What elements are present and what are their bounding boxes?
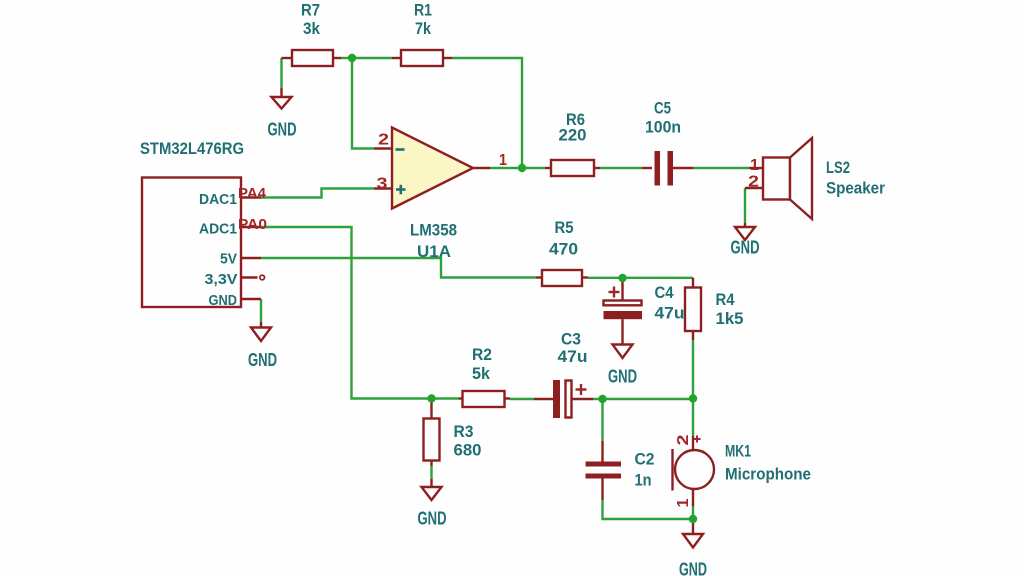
svg-text:LS2: LS2 [826,158,850,177]
svg-text:3: 3 [377,176,388,193]
wire junction down to C2 [601,399,603,441]
svg-text:3,3V: 3,3V [205,272,238,288]
wire speaker pin2 to GND [744,188,746,223]
svg-text:3k: 3k [303,19,320,38]
plus mark [396,185,406,195]
svg-text:1: 1 [675,498,692,507]
svg-text:2: 2 [378,132,389,149]
svg-text:GND: GND [731,238,760,258]
svg-text:R5: R5 [555,218,574,237]
junction node R4/mic [689,394,697,402]
wire 5V to R5 [261,258,536,278]
svg-text:680: 680 [454,441,482,460]
wire R2 to C3 [510,398,534,400]
capacitor C3 [534,380,593,418]
svg-text:GND: GND [418,509,447,529]
svg-text:2: 2 [675,434,692,445]
svg-text:LM358: LM358 [410,221,457,240]
pin GND stub [241,298,261,300]
ground below speaker [735,223,755,240]
svg-text:100n: 100n [645,118,681,137]
resistor R6 [545,160,600,176]
svg-text:470: 470 [549,240,578,259]
wire R3 bottom to GND [430,466,432,479]
svg-text:1: 1 [499,152,507,169]
wire R7 left to GND [280,58,282,88]
svg-text:GND: GND [608,367,637,387]
junction node R2/R3 [427,394,435,402]
capacitor C4 [604,281,643,345]
wire STM GND pin down [260,299,262,322]
svg-text:5k: 5k [472,364,491,383]
wire mic junction down to mic pin2 [692,399,694,436]
svg-text:C3: C3 [561,330,581,349]
svg-text:GND: GND [268,120,297,140]
svg-text:1n: 1n [635,471,652,490]
junction node R5/C4 [618,274,626,282]
svg-text:Speaker: Speaker [826,179,885,198]
wire R6 to C5 [600,167,642,169]
resistor R5 [536,270,588,286]
svg-text:Microphone: Microphone [725,465,811,484]
wire mic pin1 to junction [692,506,694,519]
ground below R7 [272,88,292,109]
capacitor C2 [586,441,622,500]
svg-text:GND: GND [679,560,707,576]
junction node mic/C2 gnd [689,515,697,523]
svg-text:R2: R2 [472,345,492,364]
wire C5 to speaker pin1 [693,167,749,169]
pin 3,3V stub with open circle [241,276,258,278]
svg-text:STM32L476RG: STM32L476RG [140,139,244,158]
svg-text:DAC1: DAC1 [199,192,237,208]
ground below C4 [613,345,633,359]
svg-text:R4: R4 [716,290,735,309]
svg-text:U1A: U1A [417,242,451,261]
wire C3 to junction [593,398,603,400]
wire R5 right to R4 [588,277,693,279]
svg-text:47u: 47u [558,347,588,366]
ground below STM32 [251,322,271,341]
IC U2 STM32L476RG box [142,178,241,308]
wire junction down to op-amp pin2 [352,58,374,149]
ground below mic [683,519,703,548]
svg-text:C4: C4 [655,283,674,302]
svg-text:1k5: 1k5 [716,309,744,328]
op-amp pin2 stub [374,147,392,149]
wire C3 junction to mic junction [603,398,694,400]
ground below R3 [422,479,442,500]
svg-text:5V: 5V [220,252,237,268]
C4 plus mark [609,287,620,298]
svg-text:PA0: PA0 [238,216,267,233]
svg-text:GND: GND [209,293,238,309]
resistor R4 [685,278,701,340]
svg-text:PA4: PA4 [238,185,267,202]
svg-text:220: 220 [559,126,587,145]
wire DAC1 to op-amp pin3 [261,189,374,198]
wire R4 bottom to junction [692,340,694,399]
pin 5V stub [241,257,261,259]
svg-text:2: 2 [748,174,759,191]
resistor R7 [282,50,342,66]
svg-text:MK1: MK1 [725,442,751,461]
op-amp pin3 stub [374,187,392,189]
svg-text:ADC1: ADC1 [199,222,237,238]
minus mark [396,148,405,151]
wire op-amp output to R6 [490,167,545,169]
junction node R7/R1 [348,54,356,62]
wire C2 bottom to mic bottom junction [603,500,694,519]
resistor R3 [424,402,440,466]
op-amp U1A [392,128,473,209]
capacitor C5 [642,151,693,186]
svg-text:R1: R1 [414,1,432,20]
svg-text:47u: 47u [655,304,685,323]
resistor R2 [459,391,511,407]
mic plus mark [694,436,701,443]
speaker LS2 [745,138,812,219]
svg-text:C2: C2 [635,450,655,469]
C3 plus mark [576,384,587,395]
pin ADC1 stub [241,226,261,228]
svg-text:7k: 7k [415,19,431,38]
junction node C3/C2 [598,395,606,403]
op-amp output stub [473,167,490,169]
pin DAC1 stub [241,196,261,198]
wire ADC1 down to mic node [261,227,432,399]
svg-text:R3: R3 [454,422,474,441]
resistor R1 [392,50,452,66]
svg-text:GND: GND [248,350,277,370]
wire junction to R2 [432,397,459,399]
svg-text:R7: R7 [301,1,320,20]
wire R7 right to junction [341,57,352,59]
microphone MK1 [673,436,715,506]
svg-text:1: 1 [750,157,759,174]
wire junction to R1 left [352,57,392,59]
junction node output [518,164,526,172]
wire R1 right to output node [452,58,522,168]
svg-text:C5: C5 [654,99,671,118]
